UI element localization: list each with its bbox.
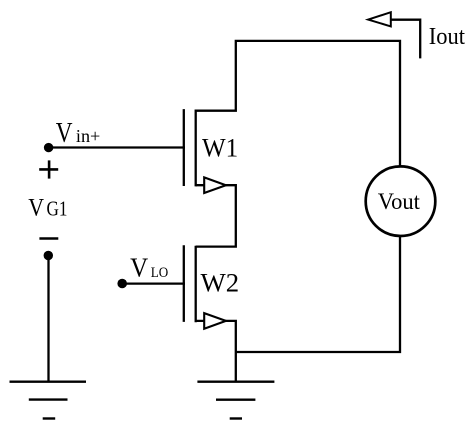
- svg-text:Iout: Iout: [429, 24, 465, 50]
- svg-text:W1: W1: [202, 134, 238, 163]
- svg-text:V: V: [28, 195, 44, 222]
- svg-text:V: V: [130, 253, 148, 284]
- svg-text:V: V: [56, 117, 73, 149]
- svg-text:W2: W2: [201, 268, 240, 298]
- svg-text:in+: in+: [76, 126, 100, 146]
- svg-text:G1: G1: [47, 197, 68, 221]
- svg-text:Vout: Vout: [378, 189, 421, 215]
- svg-text:LO: LO: [151, 265, 169, 281]
